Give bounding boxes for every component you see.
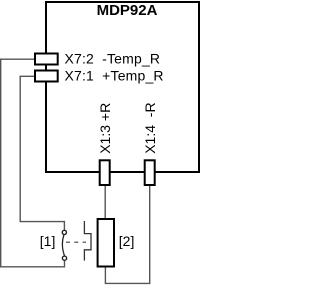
svg-text:X1:3 +R: X1:3 +R [97, 103, 113, 154]
terminal X7:2 [35, 54, 58, 65]
dashed mechanical link [66, 241, 86, 243]
svg-text:MDP92A: MDP92A [97, 2, 158, 19]
switch [1] top contact circle [62, 230, 66, 234]
svg-text:X1:4 -R: X1:4 -R [142, 102, 158, 153]
svg-text:X7:2 -Temp_R: X7:2 -Temp_R [65, 50, 161, 66]
thermal actuator bracket of sensor [84, 221, 91, 261]
svg-text:[2]: [2] [119, 233, 135, 249]
terminal X1:4 [145, 160, 155, 185]
sensor body [2] [98, 219, 114, 267]
switch [1] bottom contact circle [62, 256, 66, 260]
wire from X1:3 connector down to sensor [2] top [104, 186, 106, 219]
switch blade [62, 235, 64, 256]
svg-text:X7:1 +Temp_R: X7:1 +Temp_R [65, 67, 164, 83]
terminal X1:3 [100, 160, 110, 185]
MDP92A module box [46, 2, 199, 172]
wire from X7:2 down left side to switch bottom contact [1, 59, 65, 267]
svg-text:[1]: [1] [40, 233, 56, 249]
wire from sensor [2] bottom to X1:4 connector [105, 186, 149, 283]
terminal X7:1 [35, 71, 58, 82]
wire from X7:1 down to switch top contact [20, 76, 64, 230]
